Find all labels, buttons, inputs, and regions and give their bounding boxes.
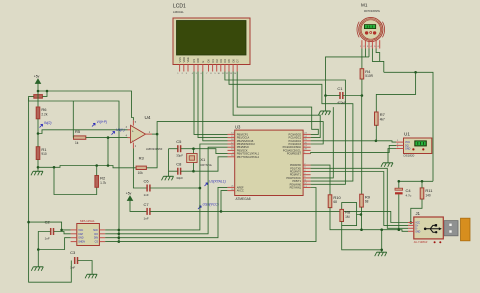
svg-text:VEE: VEE xyxy=(186,57,190,62)
wire R11 bottom to USB VCC xyxy=(408,199,422,223)
svg-text:DS1820: DS1820 xyxy=(404,154,415,158)
svg-text:D4: D4 xyxy=(223,59,227,63)
junction R1 bottom node xyxy=(37,166,40,169)
wire PC2 to DS1820 VCC xyxy=(311,141,396,142)
wire XTAL1 to PB6 xyxy=(194,149,228,154)
junction usbvcc node xyxy=(220,210,223,213)
wire +5v to C7 xyxy=(130,201,147,212)
wire R6 bottom to IN node xyxy=(37,119,39,134)
wire C3 right to gnd xyxy=(78,261,92,275)
svg-text:C2: C2 xyxy=(45,220,51,225)
wire sensor CS to PD7 xyxy=(105,188,316,242)
svg-text:1nF: 1nF xyxy=(45,237,50,241)
svg-text:140: 140 xyxy=(425,193,431,197)
ground below U1 xyxy=(381,163,393,167)
wire ground drop xyxy=(381,230,383,253)
svg-text:1nF: 1nF xyxy=(70,266,75,270)
svg-text:D2: D2 xyxy=(215,59,219,63)
svg-text:D-: D- xyxy=(415,228,418,230)
svg-text:C3: C3 xyxy=(70,250,76,255)
wire R9 bottom xyxy=(361,207,363,214)
svg-text:PD7/AIN1: PD7/AIN1 xyxy=(290,186,302,190)
svg-text:U3: U3 xyxy=(235,125,241,130)
svg-text:C8: C8 xyxy=(176,162,182,167)
svg-text:1.7k: 1.7k xyxy=(100,181,106,185)
svg-text:D7: D7 xyxy=(235,59,239,63)
svg-text:C5: C5 xyxy=(176,139,182,144)
probe label IN(2) xyxy=(40,121,52,127)
svg-text:ATMEGA8: ATMEGA8 xyxy=(236,197,251,201)
wire C5 left xyxy=(169,148,178,150)
resistor R11 xyxy=(420,188,433,200)
wire sensor DO to PB4 xyxy=(105,147,227,234)
svg-text:D3: D3 xyxy=(219,59,223,63)
wire IN node to op-amp +input xyxy=(38,130,128,134)
wire output to PC3 xyxy=(157,122,323,144)
wire feedback to R3 xyxy=(146,134,157,168)
svg-text:D0: D0 xyxy=(207,59,211,63)
svg-text:4k7: 4k7 xyxy=(380,117,385,121)
wire op-amp pin2 down xyxy=(133,149,146,189)
svg-text:AU-Y1005-R: AU-Y1005-R xyxy=(414,241,428,244)
svg-text:470uF: 470uF xyxy=(337,101,346,105)
svg-text:VI(I+P): VI(I+P) xyxy=(97,120,108,124)
junction crystal nodes xyxy=(192,147,195,172)
junction usb vcc join xyxy=(410,221,413,224)
wire op-amp output xyxy=(152,133,157,135)
wire DS1820 DQ to PC6 xyxy=(311,145,396,153)
wire PD2 to USB D+ xyxy=(311,172,408,226)
ground bottom right xyxy=(375,252,387,256)
wire LCD E to PB2 xyxy=(203,72,228,141)
svg-text:U3(XTAL1): U3(XTAL1) xyxy=(209,180,226,184)
wire R9 node to R10 rail xyxy=(361,215,363,230)
junction r9 node xyxy=(360,213,363,216)
wire +5V to node xyxy=(37,84,39,92)
svg-text:10k: 10k xyxy=(138,171,144,175)
svg-text:68: 68 xyxy=(365,200,369,204)
svg-text:C1: C1 xyxy=(337,86,343,91)
resistor R3 xyxy=(136,156,146,176)
svg-text:510R: 510R xyxy=(365,74,373,78)
svg-text:D6: D6 xyxy=(231,59,235,63)
capacitor C2 xyxy=(45,220,54,241)
resistor RT (series, horizontal on +5V feed) xyxy=(34,95,43,99)
capacitor C4 (polarized) xyxy=(395,188,412,198)
ground below C2 xyxy=(31,267,43,271)
resistor R4 xyxy=(360,69,374,80)
capacitor C5 xyxy=(176,139,183,158)
LCD LCD1 (LM041L) xyxy=(173,4,250,65)
junction sensor bus taps xyxy=(118,229,121,243)
wire LCD D5 to PD5 xyxy=(229,72,353,182)
wire C2 node to gnd xyxy=(37,250,39,267)
svg-text:LCD1: LCD1 xyxy=(173,4,186,10)
wire R7 riser xyxy=(376,72,415,112)
svg-text:4.7u: 4.7u xyxy=(406,194,412,198)
wire C1 right xyxy=(343,95,362,97)
stepper motor M1 xyxy=(357,3,385,49)
wire RT right to rail xyxy=(42,91,47,96)
svg-text:C7: C7 xyxy=(144,202,150,207)
microcontroller U3 ATMEGA8 xyxy=(228,125,311,201)
svg-text:DIN: DIN xyxy=(94,237,98,240)
svg-text:+5v: +5v xyxy=(34,75,40,79)
capacitor C8 xyxy=(176,162,183,181)
LCD1 pins xyxy=(177,57,239,75)
wire PD1 to USB D- xyxy=(311,168,408,228)
resistor R1 xyxy=(36,147,47,160)
wire C8 right to XTAL2 node xyxy=(181,170,194,172)
svg-text:E: E xyxy=(201,61,205,63)
wire R2 loop xyxy=(54,167,97,194)
wire LCD RW to PB1 xyxy=(198,72,228,138)
ground crystal caps xyxy=(162,176,174,180)
junction left rail joints xyxy=(27,221,63,231)
svg-text:CRYSTAL: CRYSTAL xyxy=(200,163,212,167)
wire C1 ground stem xyxy=(325,96,327,112)
capacitor C7 xyxy=(144,202,150,221)
svg-text:1M: 1M xyxy=(345,215,350,219)
wire motor pin3 drop xyxy=(368,49,370,57)
svg-text:U4: U4 xyxy=(145,115,151,120)
wire R1 bottom to ground xyxy=(37,160,39,172)
junction C6 node xyxy=(199,187,202,190)
svg-text:1nF: 1nF xyxy=(144,193,149,197)
wire left rail xyxy=(29,98,72,282)
wire sensor SCK to PB3 xyxy=(105,144,227,230)
temperature sensor U1 DS1820 xyxy=(396,132,432,158)
svg-text:GND: GND xyxy=(415,231,420,233)
wire LCD D4 to PD6 xyxy=(225,72,346,185)
svg-text:1nF: 1nF xyxy=(144,216,149,220)
op-amp U4 xyxy=(126,115,163,151)
wire LCD RS to PB0 xyxy=(194,72,228,135)
wire R8 bottom to ground xyxy=(342,222,382,250)
wire R4 bottom to C1 node xyxy=(361,79,363,96)
wire pin4 net across xyxy=(384,72,433,181)
junction topright node xyxy=(414,71,417,74)
wire PD4 riser xyxy=(311,107,334,178)
svg-text:LMP2231M5F: LMP2231M5F xyxy=(146,147,163,151)
ground below R1 xyxy=(31,171,43,175)
wire C8 left xyxy=(169,170,178,172)
wire R7 bottom to DQ rail xyxy=(375,125,377,141)
capacitor C6 xyxy=(144,179,150,198)
svg-text:33pF: 33pF xyxy=(176,176,183,180)
svg-text:+5v: +5v xyxy=(126,192,132,196)
power +5V AVCC supply xyxy=(126,192,133,201)
capacitor C1 xyxy=(337,86,346,105)
svg-text:PB7/TOSC2/XTAL2: PB7/TOSC2/XTAL2 xyxy=(237,155,260,159)
junction C2 gnd node xyxy=(37,248,40,251)
wire +5V feed through RT to R6 xyxy=(37,91,39,107)
junction minus node xyxy=(107,136,110,139)
probe label USB(VCC) xyxy=(198,203,219,209)
wire top rail to op-amp power xyxy=(38,91,133,120)
wire USB VCC run xyxy=(221,211,408,222)
USB connector J1 xyxy=(408,211,470,244)
resistor R6 xyxy=(36,107,48,119)
svg-text:33pF: 33pF xyxy=(176,154,183,158)
wire bottom feedback rail xyxy=(38,166,136,168)
svg-text:R3: R3 xyxy=(139,156,145,161)
svg-text:910: 910 xyxy=(41,152,47,156)
svg-text:RW: RW xyxy=(196,58,200,63)
svg-text:GND: GND xyxy=(405,148,411,151)
capacitor C3 xyxy=(70,250,77,270)
junction rail joints xyxy=(53,164,110,168)
wire XTAL2 to PB7 xyxy=(194,157,228,171)
wire R2 top to rail xyxy=(96,166,98,176)
wire C2 right to CAP pin xyxy=(54,232,71,234)
svg-text:R5: R5 xyxy=(75,129,81,134)
wire R5 right to minus node xyxy=(86,137,108,139)
junction sck/c6 joint xyxy=(199,187,202,190)
svg-text:+: + xyxy=(132,130,134,134)
svg-text:MPL115A1: MPL115A1 xyxy=(80,219,95,223)
wire motor pins 5-6 merge xyxy=(376,49,380,62)
svg-text:DO: DO xyxy=(94,233,98,236)
svg-text:2.2k: 2.2k xyxy=(41,112,47,116)
wire PD0 to R10 xyxy=(311,165,330,195)
wire C4 bottom to USB gnd xyxy=(398,194,400,229)
wire IN node to R1 xyxy=(37,134,39,147)
junction usb gnd joins xyxy=(398,228,401,231)
wire rail up to inverting input xyxy=(108,138,128,166)
svg-text:USB(VCC): USB(VCC) xyxy=(203,203,219,207)
wire motor pin4 staircase xyxy=(372,49,383,73)
wire motor feed down to R4 xyxy=(361,49,363,69)
svg-text:CAP: CAP xyxy=(78,233,83,236)
wire C6 right to SCK line xyxy=(150,187,200,189)
svg-text:CS: CS xyxy=(95,241,99,244)
wire top net to C4/R11 xyxy=(399,180,433,182)
svg-text:AVCC: AVCC xyxy=(237,189,244,193)
wire motor pin2 drop xyxy=(364,49,366,57)
wire C5 right to XTAL1 node xyxy=(181,148,194,150)
wire loop around RT xyxy=(29,96,119,241)
wire R10 bottom rail xyxy=(330,208,408,232)
svg-text:D5: D5 xyxy=(227,59,231,63)
power +5V supply for input divider xyxy=(34,75,41,84)
ground below C1 xyxy=(319,111,331,115)
pressure sensor U2 MPL115A1 xyxy=(71,219,106,246)
svg-text:GND: GND xyxy=(78,237,84,240)
svg-text:68: 68 xyxy=(333,200,337,204)
resistor R7 xyxy=(375,112,386,126)
wire LCD D7 to PC0 xyxy=(237,72,318,135)
svg-text:D1: D1 xyxy=(211,59,215,63)
wire motor common to C1 ground branch xyxy=(326,57,370,96)
wire sensor GND down xyxy=(38,238,70,250)
svg-text:C4: C4 xyxy=(406,188,412,193)
wire LCD D6 to PC1 xyxy=(233,72,320,138)
svg-text:1k: 1k xyxy=(75,141,79,145)
svg-text:M1: M1 xyxy=(361,3,368,8)
ground below C3 xyxy=(85,274,97,278)
wire R8 lower jog xyxy=(342,215,357,226)
svg-text:SHDN: SHDN xyxy=(78,241,85,244)
junction C1 node xyxy=(324,94,363,97)
wire R8 top jog xyxy=(342,203,361,215)
svg-text:SCK: SCK xyxy=(93,229,98,232)
svg-text:X1: X1 xyxy=(200,157,206,162)
wire C1 node down to R9 xyxy=(361,96,363,195)
junction c4 r11 node xyxy=(398,180,424,183)
wire C4 top xyxy=(398,181,400,188)
wire DS1820 GND xyxy=(388,149,396,163)
svg-text:U1: U1 xyxy=(404,132,410,137)
probe label U3(XTAL1) xyxy=(205,180,226,186)
resistor R2 xyxy=(95,175,107,187)
resistor R8 xyxy=(340,209,351,222)
wire left rail branch to VCC xyxy=(29,222,71,230)
svg-text:IN(2): IN(2) xyxy=(44,121,52,125)
wire C7 to AVCC and USB VCC xyxy=(150,191,227,212)
wire C1 left xyxy=(326,95,341,97)
svg-text:VCC: VCC xyxy=(415,223,420,225)
svg-text:C6: C6 xyxy=(144,179,150,184)
junction gnd rail joints xyxy=(380,249,383,252)
probe label U4(I-) xyxy=(112,128,125,134)
svg-text:VSS: VSS xyxy=(178,57,182,62)
junction input node xyxy=(37,90,49,135)
svg-text:VDD: VDD xyxy=(182,57,186,63)
svg-text:J1: J1 xyxy=(416,211,421,216)
svg-text:PC6/RESET: PC6/RESET xyxy=(287,152,302,156)
junction dq join xyxy=(375,140,378,143)
wire C2 left down xyxy=(38,232,50,250)
wire R5 left up to rail xyxy=(72,101,74,138)
wire cap ground rail xyxy=(168,149,170,177)
probe label VI(I+P) xyxy=(92,120,107,126)
wire sensor DIN to AREF xyxy=(105,187,227,237)
svg-text:LM041L: LM041L xyxy=(173,10,184,14)
svg-text:MOTOR-BISTE: MOTOR-BISTE xyxy=(364,11,380,13)
svg-text:VCC: VCC xyxy=(78,229,83,232)
svg-text:RS: RS xyxy=(192,59,196,63)
resistor R10 xyxy=(328,195,341,208)
junction rail crossing xyxy=(360,228,383,231)
junction output node xyxy=(156,133,159,136)
wire crystal node link xyxy=(193,149,195,172)
resistor R9 xyxy=(360,194,371,207)
crystal X1 xyxy=(187,154,213,168)
wire R11 top xyxy=(421,181,423,188)
resistor R5 xyxy=(74,129,86,145)
svg-text:U4(I-): U4(I-) xyxy=(116,128,125,132)
